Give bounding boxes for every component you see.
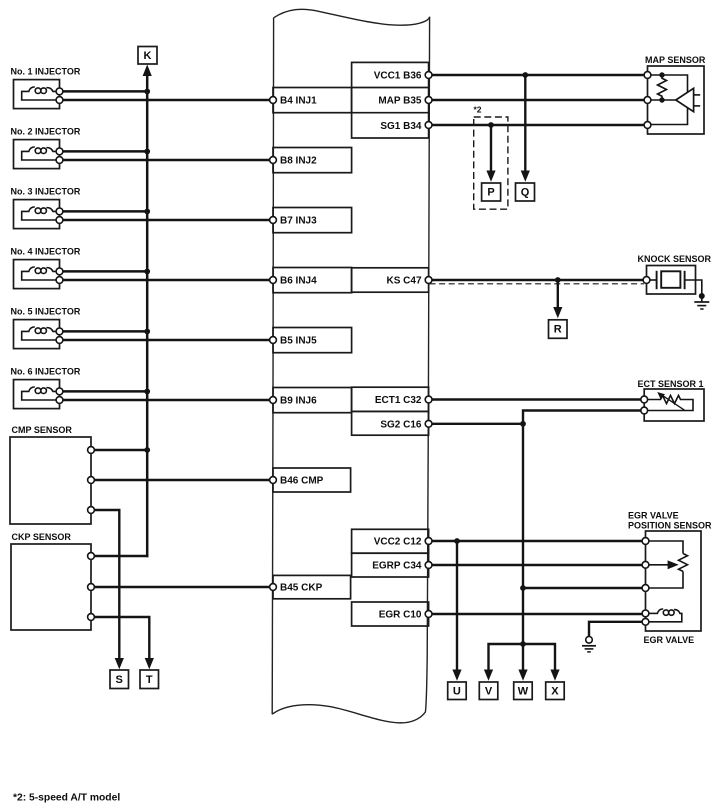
wire EGR C10 to EGR valve	[432, 613, 642, 615]
MAP resistor	[658, 75, 667, 100]
terminal INJ5 t1	[56, 328, 63, 335]
injector No.4	[11, 246, 270, 288]
arrowhead into U	[452, 670, 461, 681]
EGR pot top lead	[649, 541, 683, 554]
injector No.2 coil	[29, 147, 35, 151]
knock sensor body	[647, 266, 696, 295]
svg-text:EGRP C34: EGRP C34	[372, 561, 422, 572]
connector box K	[138, 47, 157, 65]
injector No.2 inner wire	[22, 151, 60, 160]
wire CKP t2 to ECM B45	[94, 586, 269, 588]
knock sensor	[638, 254, 712, 309]
knock ground dot	[699, 293, 705, 299]
arrowhead into V	[484, 670, 493, 681]
terminal MAP B35	[425, 97, 432, 104]
junction K-line INJ1	[144, 89, 150, 95]
terminal MAP t2	[644, 97, 651, 104]
arrowhead into R	[553, 307, 562, 318]
knock plate right	[684, 271, 686, 289]
grid divider row2	[352, 112, 429, 114]
junction resistor bottom	[659, 97, 664, 102]
SG2 ground bus vertical	[522, 424, 524, 644]
injector No.1 inner wire	[22, 91, 60, 100]
svg-text:VCC1 B36: VCC1 B36	[374, 71, 422, 82]
terminal VCC1 B36	[425, 72, 432, 79]
connector box Q	[516, 183, 535, 201]
manifold V-W-X	[489, 644, 556, 671]
wire MAP to MAP sensor	[432, 99, 644, 101]
wire EGR sensor t3 to SG2 bus	[523, 587, 642, 589]
terminal MAP t1	[644, 72, 651, 79]
injector No.1 coil	[29, 87, 35, 91]
wire INJ6 bottom to ECM B9	[63, 399, 269, 402]
injector No.4 body	[14, 260, 60, 289]
knock lead left	[650, 279, 657, 281]
svg-text:ECT1 C32: ECT1 C32	[375, 395, 422, 406]
wire INJ2 bottom to ECM B8	[63, 159, 269, 162]
arrowhead into Q	[521, 171, 530, 182]
wire INJ6 top to K-line	[63, 390, 147, 393]
injector No.4 coil	[29, 267, 35, 271]
EGR wiper arrowhead	[668, 560, 679, 569]
shield dashed line	[430, 283, 645, 285]
wire SG2 up to ECT sensor t2	[523, 411, 641, 424]
wire CMP t3 to S	[94, 510, 119, 660]
injector No.3 coil	[29, 207, 35, 211]
EGR valve coil	[657, 609, 663, 613]
junction VCC1 to Q	[522, 72, 528, 78]
svg-text:B46 CMP: B46 CMP	[280, 476, 324, 487]
terminal SG1 B34	[425, 122, 432, 129]
knock ground bar2	[697, 305, 706, 307]
knock ground stub	[701, 296, 703, 302]
EGR sensor body	[646, 531, 702, 631]
wire INJ3 bottom to ECM B7	[63, 219, 269, 222]
EGR ground bar3	[587, 651, 591, 653]
connector box V	[479, 682, 498, 700]
wire INJ1 top to K-line	[63, 90, 147, 93]
svg-text:SG2 C16: SG2 C16	[380, 419, 422, 430]
junction SG1 to P	[488, 122, 494, 128]
K feed line vertical	[146, 76, 149, 558]
wire INJ2 top to K-line	[63, 150, 147, 153]
svg-text:EGR C10: EGR C10	[379, 610, 422, 621]
arrowhead into P	[486, 171, 495, 182]
svg-text:No. 4 INJECTOR: No. 4 INJECTOR	[11, 246, 81, 256]
injector No.5	[11, 306, 270, 348]
terminal INJ6 t2	[56, 397, 63, 404]
knock ground wire	[685, 280, 702, 294]
ECM port box EGR C10	[352, 602, 432, 626]
wire INJ5 top to K-line	[63, 330, 147, 333]
ECT thermistor arrowhead	[657, 392, 665, 400]
terminal INJ1 t1	[56, 88, 63, 95]
arrowhead into W	[518, 670, 527, 681]
svg-text:ECT SENSOR 1: ECT SENSOR 1	[638, 379, 704, 389]
ECM port grid VCC1/MAP/SG1	[352, 62, 429, 138]
svg-text:POSITION SENSOR: POSITION SENSOR	[628, 521, 712, 531]
wire INJ1 bottom to ECM B4	[63, 99, 269, 102]
injector No.6	[11, 366, 270, 408]
svg-text:B9 INJ6: B9 INJ6	[280, 396, 317, 407]
EGR valve position sensor	[628, 510, 712, 631]
ECM port box SG2 C16	[352, 411, 432, 435]
terminal CMP t3	[88, 507, 95, 514]
wire INJ3 top to K-line	[63, 210, 147, 213]
svg-text:KS C47: KS C47	[386, 276, 421, 287]
terminal EGR t5	[642, 618, 649, 625]
svg-text:MAP B35: MAP B35	[378, 96, 422, 107]
wire VCC1 to MAP sensor	[432, 74, 644, 76]
wire P drop	[490, 125, 492, 172]
EGR ground wire	[589, 622, 642, 636]
terminal INJ4 t1	[56, 268, 63, 275]
junction VCC2 to U	[454, 538, 460, 544]
svg-text:EGR VALVE: EGR VALVE	[628, 510, 679, 520]
terminal CKP t3	[88, 614, 95, 621]
wire U drop	[456, 541, 458, 671]
junction SG2	[520, 421, 526, 427]
injector No.2	[11, 126, 270, 168]
terminal CKP t2	[88, 584, 95, 591]
wire INJ4 bottom to ECM B6	[63, 279, 269, 282]
EGR ground circle	[586, 637, 593, 644]
connector box T	[140, 670, 159, 689]
ECM port box B9 INJ6	[270, 388, 352, 413]
wire INJ5 bottom to ECM B5	[63, 339, 269, 342]
MAP sensor	[644, 55, 706, 134]
svg-text:S: S	[116, 674, 123, 686]
ECM port box B45 CKP	[270, 575, 351, 598]
MAP element plate bottom	[694, 105, 701, 107]
strip top wavy edge	[274, 9, 430, 25]
EGR valve coil lead	[649, 612, 658, 614]
svg-text:P: P	[487, 187, 494, 199]
wire INJ4 top to K-line	[63, 270, 147, 273]
ECM port box B46 CMP	[270, 468, 351, 492]
ECM port box B6 INJ4	[270, 268, 352, 293]
injector No.2 body	[14, 140, 60, 169]
wire VCC2 to EGR sensor	[432, 540, 642, 542]
connector box S	[110, 670, 129, 689]
wire EGRP to EGR sensor	[432, 564, 642, 566]
injector No.1 body	[14, 80, 60, 109]
svg-text:B5 INJ5: B5 INJ5	[280, 336, 317, 347]
svg-text:No. 2 INJECTOR: No. 2 INJECTOR	[11, 126, 81, 136]
arrowhead into T	[145, 658, 154, 669]
svg-text:SG1 B34: SG1 B34	[380, 121, 422, 132]
ECM connector strip torn-paper outline	[272, 9, 429, 723]
connector box U	[448, 682, 467, 700]
junction KS to R	[555, 277, 561, 283]
connector box P	[482, 183, 501, 201]
ECM port box B8 INJ2	[270, 148, 352, 173]
terminal INJ1 t2	[56, 97, 63, 104]
svg-text:*2: 5-speed A/T model: *2: 5-speed A/T model	[13, 792, 120, 803]
svg-text:T: T	[146, 674, 153, 686]
MAP sensor body	[648, 66, 705, 134]
junction K-line CMP	[144, 447, 150, 453]
ECT sensor 1	[638, 379, 705, 421]
ECM port box EGRP C34	[352, 553, 432, 577]
terminal ECT t1	[641, 396, 648, 403]
EGR ground bar1	[582, 645, 596, 647]
svg-text:EGR VALVE: EGR VALVE	[644, 635, 695, 645]
MAP transducer triangle	[676, 88, 694, 111]
injector No.6 body	[14, 380, 60, 409]
terminal INJ5 t2	[56, 337, 63, 344]
junction manifold W	[520, 641, 526, 647]
terminal EGR t2	[642, 561, 649, 568]
wire CMP t2 to ECM B46	[94, 479, 269, 481]
arrowhead into S	[115, 658, 124, 669]
injector No.3	[11, 186, 270, 228]
svg-text:CKP SENSOR: CKP SENSOR	[12, 532, 72, 542]
svg-text:B6 INJ4: B6 INJ4	[280, 276, 317, 287]
wire SG2 to junction	[432, 423, 523, 425]
wire SG1 to MAP sensor	[432, 124, 644, 126]
dashed 5AT option box	[474, 117, 508, 209]
EGR ground bar2	[585, 648, 594, 650]
svg-text:VCC2 C12: VCC2 C12	[374, 537, 422, 548]
injector No.4 inner wire	[22, 271, 60, 280]
MAP wiper line	[651, 99, 677, 101]
ECM port box KS C47	[352, 268, 432, 292]
connector box W	[514, 682, 533, 700]
ECM port box B7 INJ3	[270, 208, 352, 233]
ECT thermistor loop	[648, 395, 693, 410]
MAP element plate top	[694, 94, 701, 96]
svg-text:W: W	[518, 685, 529, 697]
injector No.3 body	[14, 200, 60, 229]
junction SG2 bus EGR t3	[520, 585, 526, 591]
svg-text:No. 5 INJECTOR: No. 5 INJECTOR	[11, 306, 81, 316]
junction K-line INJ4	[144, 269, 150, 275]
terminal CMP t1	[88, 447, 95, 454]
strip bottom wavy edge	[272, 656, 427, 723]
junction K-line INJ5	[144, 329, 150, 335]
injector No.5 inner wire	[22, 331, 60, 340]
ECT thermistor arrow	[662, 395, 685, 410]
svg-text:R: R	[554, 324, 562, 336]
svg-text:No. 3 INJECTOR: No. 3 INJECTOR	[11, 186, 81, 196]
terminal EGR t4	[642, 610, 649, 617]
terminal CKP t1	[88, 553, 95, 560]
svg-text:CMP SENSOR: CMP SENSOR	[12, 425, 73, 435]
svg-text:V: V	[485, 685, 493, 697]
knock plate left	[656, 271, 658, 289]
svg-text:No. 6 INJECTOR: No. 6 INJECTOR	[11, 366, 81, 376]
wire ECT1 to ECT sensor	[432, 398, 641, 400]
EGR pot bottom lead	[649, 571, 683, 588]
terminal INJ6 t1	[56, 388, 63, 395]
injector No.1	[11, 66, 270, 108]
injector No.6 coil	[29, 387, 35, 391]
injector No.6 inner wire	[22, 391, 60, 400]
arrowhead into X	[550, 670, 559, 681]
wire R drop	[557, 280, 559, 309]
MAP inner loop	[651, 75, 688, 125]
terminal INJ3 t1	[56, 208, 63, 215]
ECM port box VCC2 C12	[352, 529, 432, 553]
EGR valve	[642, 609, 694, 645]
EGR pot resistor	[679, 554, 688, 572]
wire W drop	[522, 644, 524, 671]
knock piezo square	[661, 271, 680, 288]
svg-text:No. 1 INJECTOR: No. 1 INJECTOR	[11, 66, 81, 76]
wire Q drop	[524, 75, 526, 172]
strip right edge	[427, 17, 429, 656]
svg-text:MAP SENSOR: MAP SENSOR	[645, 55, 706, 65]
svg-text:B8 INJ2: B8 INJ2	[280, 156, 317, 167]
terminal ECT t2	[641, 407, 648, 414]
terminal INJ3 t2	[56, 217, 63, 224]
EGR wiper line	[649, 564, 669, 566]
strip left edge	[272, 18, 273, 714]
arrowhead into K	[143, 65, 152, 77]
terminal EGR t1	[642, 538, 649, 545]
terminal INJ2 t2	[56, 157, 63, 164]
injector No.5 body	[14, 320, 60, 349]
terminal INJ4 t2	[56, 277, 63, 284]
knock ground bar1	[694, 301, 709, 303]
CKP sensor body	[11, 544, 91, 630]
CKP sensor	[11, 532, 269, 669]
svg-text:Q: Q	[521, 187, 530, 199]
terminal EGR t3	[642, 585, 649, 592]
svg-text:U: U	[453, 685, 461, 697]
junction K-line INJ6	[144, 389, 150, 395]
knock ground bar3	[700, 308, 703, 310]
terminal INJ2 t1	[56, 148, 63, 155]
connector box R	[549, 320, 568, 339]
CMP sensor body	[10, 437, 91, 524]
svg-text:*2: *2	[474, 104, 482, 114]
svg-text:B4 INJ1: B4 INJ1	[280, 96, 317, 107]
connector box X	[546, 682, 565, 700]
CMP sensor	[10, 425, 269, 670]
svg-text:KNOCK SENSOR: KNOCK SENSOR	[638, 254, 712, 264]
junction K-line INJ2	[144, 149, 150, 155]
svg-text:X: X	[551, 685, 559, 697]
wire CMP t1 to K-line	[94, 449, 147, 451]
wire KS to knock sensor	[432, 279, 643, 281]
svg-text:B45 CKP: B45 CKP	[280, 583, 323, 594]
terminal MAP t3	[644, 122, 651, 129]
injector No.3 inner wire	[22, 211, 60, 220]
wire CKP t3 to T	[94, 617, 149, 660]
svg-text:B7 INJ3: B7 INJ3	[280, 216, 317, 227]
wire CKP t1 to K-line	[94, 555, 148, 558]
ECM port box ECT1 C32	[352, 387, 432, 411]
terminal knock t1	[643, 277, 650, 284]
grid divider row1	[352, 87, 429, 89]
terminal CMP t2	[88, 477, 95, 484]
junction K-line INJ3	[144, 209, 150, 215]
svg-text:K: K	[144, 50, 152, 62]
junction resistor top	[659, 72, 664, 77]
injector No.5 coil	[29, 327, 35, 331]
grid outline	[352, 62, 429, 138]
ECT sensor body	[644, 389, 704, 421]
ECM port box B5 INJ5	[270, 328, 352, 353]
ECM port box B4 INJ1	[270, 88, 352, 113]
